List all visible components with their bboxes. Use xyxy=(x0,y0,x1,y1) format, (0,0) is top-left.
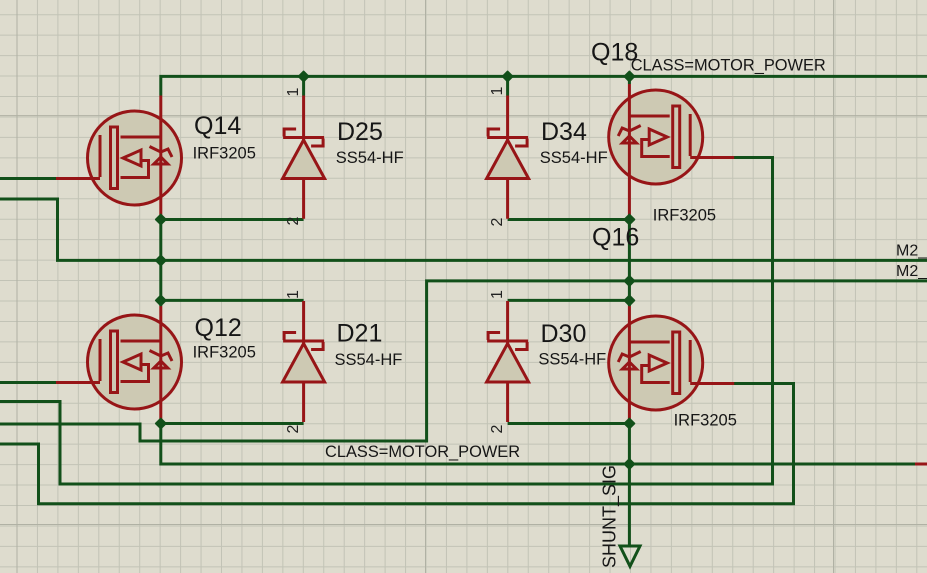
svg-text:IRF3205: IRF3205 xyxy=(193,344,256,362)
wire M2 net B: stub, jog and rail xyxy=(0,281,927,441)
svg-text:D30: D30 xyxy=(541,320,587,348)
junction xyxy=(156,214,166,224)
junction xyxy=(624,459,634,469)
junction xyxy=(156,255,166,265)
svg-text:CLASS=MOTOR_POWER: CLASS=MOTOR_POWER xyxy=(631,57,826,75)
wire Q12 drain to D21 cathode xyxy=(161,299,304,302)
wire Q14 source to D25 anode xyxy=(161,218,304,221)
diode D25 SS54-HF xyxy=(283,76,325,218)
wire D30 anode to Q16 source xyxy=(508,422,630,425)
wire Q18 gate net xyxy=(0,158,773,485)
svg-text:D25: D25 xyxy=(337,118,383,146)
wire SHUNT_SIG drop xyxy=(628,424,631,545)
svg-text:1: 1 xyxy=(285,88,302,97)
svg-text:1: 1 xyxy=(489,87,506,96)
wire Q12 gate stub xyxy=(0,381,56,384)
diode D21 SS54-HF xyxy=(283,301,325,422)
wire left bridge midpoint vertical xyxy=(159,220,162,301)
svg-text:1: 1 xyxy=(489,290,506,299)
svg-text:Q14: Q14 xyxy=(194,112,241,140)
diode D30 SS54-HF xyxy=(487,301,529,422)
svg-text:D21: D21 xyxy=(337,320,383,348)
svg-text:SS54-HF: SS54-HF xyxy=(538,351,606,369)
wire Q14 gate stub xyxy=(0,177,56,180)
svg-text:M2_: M2_ xyxy=(896,243,927,260)
svg-text:2: 2 xyxy=(489,425,506,434)
wire D30 cathode to Q16 drain xyxy=(508,299,630,302)
svg-text:D34: D34 xyxy=(541,118,587,146)
junction xyxy=(624,295,634,305)
junction xyxy=(156,418,166,428)
svg-text:IRF3205: IRF3205 xyxy=(653,207,716,225)
junction xyxy=(503,71,513,81)
transistor Q12 IRF3205 xyxy=(56,300,182,423)
wire Q12 source to D21 anode xyxy=(161,422,304,425)
diode D34 SS54-HF xyxy=(487,76,529,218)
junction xyxy=(624,71,634,81)
junction xyxy=(624,276,634,286)
svg-text:IRF3205: IRF3205 xyxy=(674,412,737,430)
wire shunt rail xyxy=(161,424,915,465)
svg-text:Q12: Q12 xyxy=(195,314,242,342)
junction xyxy=(156,295,166,305)
svg-text:2: 2 xyxy=(489,218,506,227)
svg-text:2: 2 xyxy=(285,217,302,226)
wire MOTOR_POWER top rail xyxy=(161,76,927,95)
junction xyxy=(299,71,309,81)
junction xyxy=(624,214,634,224)
transistor Q18 IRF3205 xyxy=(609,76,735,219)
svg-text:SHUNT_SIG: SHUNT_SIG xyxy=(600,465,621,568)
svg-text:Q16: Q16 xyxy=(592,224,639,252)
terminal SHUNT_SIG xyxy=(620,546,640,566)
wire D34 anode to Q18 source xyxy=(508,218,630,221)
wire Q16 gate net xyxy=(0,384,794,504)
wire right bridge midpoint vertical xyxy=(628,220,631,301)
svg-text:2: 2 xyxy=(285,425,302,434)
wire shunt rail red pin at right edge xyxy=(915,463,927,466)
svg-text:1: 1 xyxy=(285,290,302,299)
junction xyxy=(624,418,634,428)
transistor Q14 IRF3205 xyxy=(56,96,182,220)
svg-text:SS54-HF: SS54-HF xyxy=(335,351,403,369)
svg-text:SS54-HF: SS54-HF xyxy=(336,149,404,167)
transistor Q16 IRF3205 xyxy=(609,300,735,423)
svg-text:M2_: M2_ xyxy=(896,263,927,280)
svg-text:IRF3205: IRF3205 xyxy=(193,145,256,163)
svg-text:SS54-HF: SS54-HF xyxy=(540,149,608,167)
wire M2 net A: stub and rail xyxy=(0,199,927,260)
svg-text:CLASS=MOTOR_POWER: CLASS=MOTOR_POWER xyxy=(325,443,520,461)
